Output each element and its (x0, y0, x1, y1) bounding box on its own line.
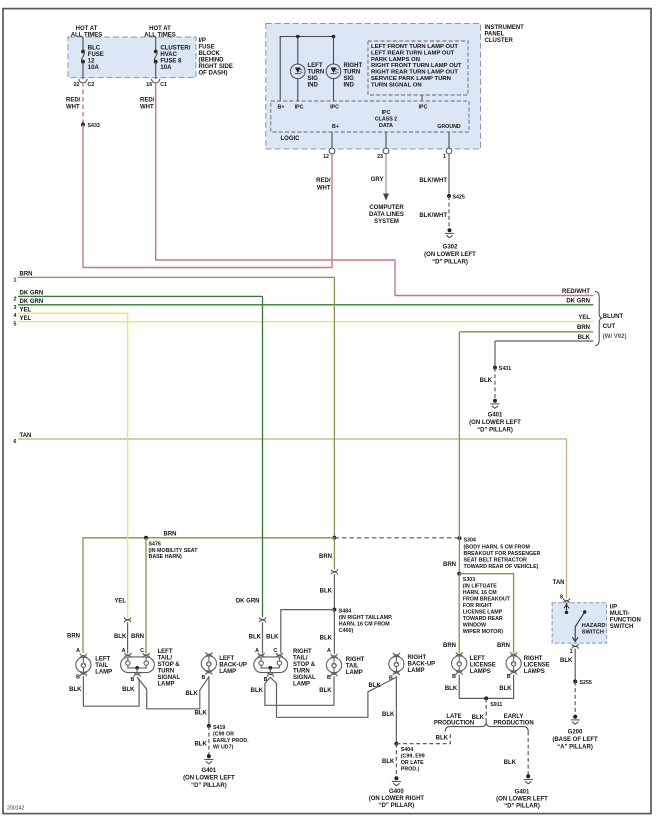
svg-text:22: 22 (74, 82, 80, 88)
lamp RIGHT LICENSE LAMPS (506, 652, 521, 675)
wire BRN blunt cut (459, 331, 593, 333)
svg-text:TURN: TURN (344, 70, 361, 76)
label RED/WHT (left fuse) (66, 98, 81, 111)
svg-text:BLK/WHT: BLK/WHT (419, 178, 447, 184)
ground G401 (blunt) label (469, 413, 521, 434)
connector arc pin 22 C2 (79, 79, 87, 83)
svg-text:LEFT REAR TURN LAMP OUT: LEFT REAR TURN LAMP OUT (371, 50, 455, 56)
svg-text:G400: G400 (389, 789, 404, 795)
svg-text:TURN: TURN (158, 668, 175, 674)
fuse CLUSTER/HVAC label (160, 46, 190, 72)
svg-text:(ON LOWER LEFT: (ON LOWER LEFT (496, 797, 548, 803)
svg-text:FUSE: FUSE (88, 52, 104, 58)
svg-text:IND: IND (344, 83, 355, 89)
LEFT TAIL LAMP label (95, 657, 112, 676)
svg-text:BLK: BLK (480, 378, 493, 384)
wire BLK S484 to right tail lamp (333, 610, 335, 654)
splice S476 (144, 536, 198, 560)
wire GRY to computer data lines (385, 154, 387, 194)
lamp LEFT LICENSE LAMPS (452, 652, 467, 675)
production brace (445, 722, 528, 731)
lamp RIGHT TAIL LAMP (326, 654, 341, 677)
svg-text:BLK/WHT: BLK/WHT (419, 213, 447, 219)
wire BLK dashed to G401 (blunt) (494, 368, 496, 399)
LATE PRODUCTION label (434, 714, 474, 727)
svg-text:BLK: BLK (499, 686, 512, 692)
svg-text:BLK: BLK (122, 687, 135, 693)
svg-text:16: 16 (146, 82, 152, 88)
wire 5 YEL (18, 321, 593, 323)
svg-text:LICENSE: LICENSE (524, 663, 550, 669)
fuse block name label (199, 38, 233, 77)
svg-text:BRN: BRN (443, 562, 456, 568)
svg-text:BLK: BLK (320, 636, 333, 642)
svg-text:A: A (327, 648, 331, 654)
svg-text:PRODUCTION: PRODUCTION (434, 721, 474, 727)
svg-text:B: B (452, 674, 456, 680)
wire YEL vertical from line 4 (127, 313, 129, 617)
wire BLK connector to left tail/stop pin A (127, 622, 129, 653)
svg-text:PARK LAMPS ON: PARK LAMPS ON (371, 57, 420, 63)
svg-text:S303: S303 (463, 577, 475, 583)
svg-text:I/P: I/P (610, 605, 617, 611)
wire logic to pin 1 (448, 132, 450, 148)
splice S304 (458, 536, 541, 570)
svg-text:S433: S433 (88, 123, 100, 129)
wire BRN S303 to right license lamp (459, 574, 513, 653)
svg-text:CLUSTER: CLUSTER (485, 38, 514, 44)
svg-text:BLK: BLK (560, 658, 573, 664)
svg-text:23: 23 (377, 154, 383, 160)
svg-text:IND: IND (308, 83, 319, 89)
svg-text:C2: C2 (88, 82, 95, 88)
connector arc pin 16 C1 (152, 79, 160, 83)
svg-text:TAIL: TAIL (346, 663, 359, 669)
svg-text:HAZARD: HAZARD (582, 623, 606, 629)
svg-text:S304: S304 (464, 538, 476, 544)
svg-text:(IN MOBILITY SEAT: (IN MOBILITY SEAT (149, 548, 199, 554)
svg-text:(BASE OF LEFT: (BASE OF LEFT (552, 737, 598, 743)
svg-text:TAN: TAN (20, 433, 32, 439)
wire 2 DK GRN (18, 295, 263, 297)
svg-text:RED/: RED/ (66, 98, 81, 104)
wire BRN vertical from line 1 (333, 277, 335, 537)
svg-text:BLK: BLK (69, 687, 82, 693)
svg-text:DK GRN: DK GRN (20, 299, 44, 305)
svg-text:BREAKOUT FOR PASSENGER: BREAKOUT FOR PASSENGER (464, 551, 541, 557)
svg-text:G401: G401 (202, 768, 217, 774)
svg-text:4: 4 (14, 313, 17, 319)
wire BLK dashed S911 to brace (485, 698, 487, 722)
svg-text:SYSTEM: SYSTEM (374, 219, 399, 225)
svg-text:C: C (140, 648, 144, 654)
I/P fuse block box (68, 37, 196, 78)
svg-text:12: 12 (88, 59, 95, 65)
logic pin labels top row (278, 105, 428, 111)
fuse BLC FUSE 12 10A (81, 37, 85, 80)
svg-text:DK GRN: DK GRN (236, 599, 260, 605)
ground G302 label (424, 245, 476, 266)
wire BLK/WHT from pin 1 (448, 154, 450, 196)
BLUNT CUT label (603, 314, 627, 340)
splice S404 (394, 742, 424, 773)
wire BLK left back-up B to S419 (208, 676, 210, 726)
svg-text:HOT AT: HOT AT (149, 26, 171, 32)
svg-text:GROUND: GROUND (437, 124, 461, 130)
connector pin 1 (hazard) (572, 644, 579, 649)
svg-text:G401: G401 (488, 413, 503, 419)
svg-text:S404: S404 (401, 747, 413, 753)
lamp LEFT BACK-UP LAMP (201, 652, 216, 675)
svg-text:TURN: TURN (293, 668, 310, 674)
svg-text:SIG: SIG (308, 76, 319, 82)
svg-text:(IN RIGHT TAILLAMP,: (IN RIGHT TAILLAMP, (339, 615, 393, 621)
blunt cut brace (595, 292, 603, 346)
svg-text:(ON LOWER LEFT: (ON LOWER LEFT (469, 420, 521, 426)
svg-text:WHT: WHT (66, 105, 80, 111)
svg-text:RIGHT REAR TURN LAMP OUT: RIGHT REAR TURN LAMP OUT (371, 70, 458, 76)
svg-text:B: B (507, 674, 511, 680)
svg-text:S911: S911 (490, 702, 502, 708)
svg-text:FROM BREAKOUT: FROM BREAKOUT (463, 597, 511, 603)
svg-text:200142: 200142 (7, 806, 24, 812)
svg-text:B: B (76, 675, 80, 681)
svg-text:CUT: CUT (603, 324, 616, 330)
splice S419 (207, 724, 249, 751)
LEFT BACK-UP LAMP label (219, 656, 247, 675)
LEFT TAIL/STOP & TURN SIGNAL LAMP label (158, 649, 181, 688)
svg-text:EARLY PROD.: EARLY PROD. (213, 738, 249, 744)
svg-text:INSTRUMENT: INSTRUMENT (485, 25, 525, 31)
wire BLK left tail B to bus (83, 676, 139, 706)
LEFT LICENSE LAMPS label (470, 656, 496, 675)
svg-text:BLK: BLK (436, 736, 449, 742)
svg-text:B+: B+ (332, 124, 339, 130)
svg-text:8: 8 (560, 595, 563, 601)
RIGHT BACK-UP LAMP label (408, 655, 436, 674)
svg-text:BLK: BLK (320, 589, 333, 595)
svg-text:IPC: IPC (295, 105, 304, 111)
svg-text:RIGHT: RIGHT (346, 657, 365, 663)
svg-text:LAMP: LAMP (219, 669, 236, 675)
HOT AT ALL TIMES label (right) (144, 26, 176, 38)
ground G200 label (552, 730, 598, 751)
svg-text:DATA: DATA (379, 123, 393, 129)
svg-text:BLK: BLK (382, 712, 395, 718)
svg-text:RIGHT FRONT TURN LAMP OUT: RIGHT FRONT TURN LAMP OUT (371, 63, 462, 69)
svg-text:(BODY HARN, 5 CM FROM: (BODY HARN, 5 CM FROM (464, 544, 531, 550)
splice S484 (332, 608, 393, 634)
svg-text:W/ UD7): W/ UD7) (213, 745, 234, 751)
svg-text:PRODUCTION: PRODUCTION (493, 721, 533, 727)
wire BLK dashed S419 to G401 (208, 726, 210, 755)
svg-text:BLK: BLK (369, 683, 382, 689)
svg-text:RIGHT SIDE: RIGHT SIDE (199, 64, 233, 70)
svg-text:BLK: BLK (382, 759, 395, 765)
svg-text:FUSE 8: FUSE 8 (160, 59, 182, 65)
svg-text:BRN: BRN (319, 554, 332, 560)
svg-text:LEFT FRONT TURN LAMP OUT: LEFT FRONT TURN LAMP OUT (371, 44, 458, 50)
wire BLK S484 to right tail/stop pin C (281, 610, 335, 654)
svg-text:DK GRN: DK GRN (20, 290, 44, 296)
wire BLK blunt cut (495, 340, 593, 342)
wire BLK connector to right tail/stop pin A (262, 622, 264, 653)
svg-text:YEL: YEL (20, 308, 32, 314)
svg-text:(BEHIND: (BEHIND (199, 58, 225, 64)
svg-text:2: 2 (14, 296, 17, 302)
svg-text:C: C (273, 648, 277, 654)
svg-text:BRN: BRN (497, 643, 510, 649)
svg-text:RIGHT: RIGHT (524, 656, 543, 662)
message list box (368, 41, 468, 95)
wire BLK connector to S484 (333, 574, 335, 609)
svg-text:G200: G200 (568, 730, 583, 736)
node dot left ind tap (296, 35, 300, 39)
svg-text:CLASS 2: CLASS 2 (375, 117, 397, 123)
lamp RIGHT BACK-UP LAMP (389, 653, 404, 676)
HAZARD SWITCH label (582, 623, 606, 636)
lamp LEFT TAIL/STOP & TURN SIGNAL LAMP (121, 653, 155, 677)
svg-text:YEL: YEL (20, 316, 32, 322)
ground G401 (left) label (183, 768, 235, 789)
svg-text:RED/: RED/ (140, 98, 155, 104)
instrument panel cluster box (266, 24, 481, 150)
wire BLK hazard to S255 (574, 649, 576, 682)
svg-text:LAMPS: LAMPS (470, 669, 491, 675)
svg-text:LAMPS: LAMPS (524, 669, 545, 675)
svg-text:C1: C1 (160, 82, 167, 88)
svg-text:WHT: WHT (140, 105, 154, 111)
label RED/WHT (right fuse) (140, 98, 155, 111)
svg-text:BLK: BLK (249, 635, 262, 641)
svg-text:TOWARD REAR OF VEHICLE): TOWARD REAR OF VEHICLE) (464, 564, 539, 570)
svg-text:(W/ V92): (W/ V92) (603, 334, 627, 340)
svg-text:G302: G302 (443, 245, 458, 251)
svg-text:“D” PILLAR): “D” PILLAR) (504, 804, 540, 810)
I/P MULTI-FUNCTION SWITCH label (610, 605, 641, 631)
svg-text:(C99, E99: (C99, E99 (401, 753, 425, 759)
svg-text:BLK: BLK (194, 742, 207, 748)
wire logic to pin 23 (385, 132, 387, 148)
svg-text:B: B (327, 675, 331, 681)
svg-text:BRN: BRN (577, 325, 590, 331)
label RED/WHT cluster B+ (316, 178, 331, 192)
svg-text:LATE: LATE (446, 714, 461, 720)
svg-text:BLOCK: BLOCK (199, 51, 221, 57)
wire BRN up to blunt cut (458, 332, 460, 538)
connector on YEL (124, 617, 131, 622)
wire RED/WHT from S433 down, right, up to cluster B+ pin 12 (83, 125, 332, 268)
svg-text:S419: S419 (213, 725, 225, 731)
svg-text:TAIL/: TAIL/ (158, 655, 173, 661)
node dot right ind tap (332, 35, 336, 39)
svg-text:BLK: BLK (504, 760, 517, 766)
svg-text:YEL: YEL (114, 599, 126, 605)
LEFT TURN SIG IND label (308, 63, 325, 89)
splice S425 (447, 194, 465, 201)
svg-text:“D” PILLAR): “D” PILLAR) (379, 803, 415, 809)
wire BLK dashed S255 to G200 (574, 682, 576, 716)
svg-text:HVAC: HVAC (160, 52, 177, 58)
fuse BLC label (88, 46, 104, 72)
svg-text:HARN, 16 CM: HARN, 16 CM (463, 590, 497, 596)
connector on DK GRN (259, 617, 266, 622)
wire RED/WHT from fuse CLUSTER/HVAC to blunt cut (156, 82, 594, 296)
svg-text:LAMP: LAMP (95, 670, 112, 676)
pin label 22 C2 (74, 82, 95, 88)
svg-text:(ON LOWER LEFT: (ON LOWER LEFT (424, 252, 476, 258)
wire BRN S303 to left license lamp (458, 574, 460, 653)
svg-text:BLK: BLK (578, 335, 591, 341)
svg-text:YEL: YEL (578, 315, 590, 321)
svg-text:LICENSE LAMP: LICENSE LAMP (463, 610, 503, 616)
ground G401 (early production) label (496, 790, 548, 810)
svg-text:RIGHT: RIGHT (408, 655, 427, 661)
svg-text:TURN SIGNAL ON: TURN SIGNAL ON (371, 82, 422, 88)
svg-text:DK GRN: DK GRN (566, 298, 590, 304)
wire DK GRN vertical from line 2 (262, 296, 264, 617)
svg-text:OR LATE: OR LATE (401, 760, 424, 766)
RIGHT TURN SIG IND lamp (326, 64, 341, 79)
ground G302 (445, 228, 454, 237)
wire message box to IPC pin (421, 95, 423, 101)
svg-text:GRY: GRY (371, 177, 384, 183)
svg-text:LAMP: LAMP (408, 668, 425, 674)
B+ internal wire (280, 37, 333, 102)
ground G400 (392, 776, 401, 785)
svg-text:IPC: IPC (382, 110, 391, 116)
svg-text:TURN: TURN (308, 70, 325, 76)
svg-text:10A: 10A (88, 65, 100, 71)
svg-text:S255: S255 (580, 680, 592, 686)
svg-text:TAIL: TAIL (95, 663, 108, 669)
HOT AT ALL TIMES label (left) (71, 26, 103, 38)
svg-text:BACK-UP: BACK-UP (408, 662, 436, 668)
svg-text:B: B (130, 677, 134, 683)
svg-text:“A” PILLAR): “A” PILLAR) (557, 745, 593, 751)
svg-text:“D” PILLAR): “D” PILLAR) (432, 260, 468, 266)
svg-text:BLK: BLK (194, 711, 207, 717)
svg-text:10A: 10A (160, 65, 172, 71)
svg-text:(IN LIFTGATE: (IN LIFTGATE (463, 584, 497, 590)
pin label 16 C1 (146, 82, 167, 88)
LEFT TURN SIG IND lamp (291, 64, 306, 79)
svg-text:STOP &: STOP & (293, 662, 316, 668)
ground G400 label (369, 789, 425, 809)
wire logic to pin 12 (331, 132, 333, 148)
svg-text:1: 1 (443, 154, 446, 160)
wire 6 TAN (18, 438, 567, 440)
svg-text:BASE HARN): BASE HARN) (149, 554, 182, 560)
wire BLK dashed S404 to G400 (395, 744, 397, 777)
ground G200 (571, 715, 580, 724)
arrow to computer data lines (383, 194, 389, 201)
svg-text:S425: S425 (453, 195, 465, 201)
svg-text:SIGNAL: SIGNAL (158, 675, 181, 681)
wire dashed BRN junction to S304 (334, 537, 459, 539)
splice S431 (493, 366, 511, 373)
svg-text:HARN, 16 CM FROM: HARN, 16 CM FROM (339, 621, 390, 627)
lamp RIGHT TAIL/STOP & TURN SIGNAL LAMP (254, 653, 288, 677)
svg-text:BLC: BLC (88, 46, 101, 52)
hazard switch (564, 603, 586, 641)
svg-text:BLK: BLK (251, 688, 264, 694)
pin 1 connector (443, 148, 452, 160)
svg-text:SWITCH: SWITCH (582, 630, 604, 636)
svg-text:RIGHT: RIGHT (344, 63, 363, 69)
ground G401 (early production) (524, 774, 533, 783)
svg-text:IPC: IPC (330, 105, 339, 111)
wire right indicator to logic (333, 37, 335, 102)
svg-text:S476: S476 (149, 542, 161, 548)
svg-text:BRN: BRN (443, 643, 456, 649)
wire RED/WHT dashed from fuse BLC to S433 (82, 82, 84, 125)
svg-text:COMPUTER: COMPUTER (369, 205, 404, 211)
svg-text:SERVICE PARK LAMP TURN: SERVICE PARK LAMP TURN (371, 76, 451, 82)
svg-text:BRN: BRN (67, 634, 80, 640)
svg-text:12: 12 (323, 154, 329, 160)
svg-text:A: A (122, 648, 126, 654)
svg-text:BACK-UP: BACK-UP (219, 663, 247, 669)
wire BLK/WHT dashed to G302 (448, 196, 450, 229)
cluster name label (485, 25, 525, 44)
wire BLK right tail/stop B to right back-up B (270, 677, 396, 717)
svg-text:CLUSTER/: CLUSTER/ (160, 46, 190, 52)
connector pin 8 (563, 598, 570, 603)
svg-text:MULTI-: MULTI- (610, 611, 630, 617)
svg-text:TAN: TAN (553, 580, 565, 586)
svg-text:“D” PILLAR): “D” PILLAR) (191, 783, 227, 789)
svg-text:BRN: BRN (164, 531, 177, 537)
svg-text:LOGIC: LOGIC (281, 136, 301, 142)
svg-text:BLK: BLK (445, 686, 458, 692)
pin 23 connector (377, 148, 389, 160)
svg-text:(ON LOWER RIGHT: (ON LOWER RIGHT (369, 796, 425, 802)
logic box (271, 101, 469, 132)
wire BLK vertical to S431 (494, 341, 496, 368)
svg-text:(ON LOWER LEFT: (ON LOWER LEFT (183, 776, 235, 782)
splice S911 (484, 696, 502, 708)
svg-text:BLK: BLK (185, 691, 198, 697)
connector C460 on right tail feed (331, 569, 338, 574)
svg-text:BRN: BRN (20, 271, 33, 277)
svg-text:(C99 OR: (C99 OR (213, 732, 234, 738)
wire 3 DK GRN (18, 304, 593, 306)
svg-text:TAIL/: TAIL/ (293, 655, 308, 661)
lamp LEFT TAIL LAMP (76, 654, 91, 677)
wire BLK dashed S404 to late production brace (396, 732, 450, 744)
svg-text:BRN: BRN (131, 634, 144, 640)
wire BRN junction down to connector C460 (333, 538, 335, 570)
fuse CLUSTER/HVAC FUSE 8 10A (154, 37, 158, 80)
svg-text:BLUNT: BLUNT (603, 314, 624, 320)
wire BLK right tail/stop B to right tail B (265, 676, 334, 705)
splice S433 (81, 123, 100, 130)
svg-text:I/P: I/P (199, 38, 206, 44)
wire BRN S304 to S303 (458, 538, 460, 574)
wire left indicator to logic (297, 37, 299, 102)
svg-text:G401: G401 (515, 790, 530, 796)
wire BLK license lamps to S911 (459, 675, 513, 699)
splice S255 (573, 680, 592, 687)
svg-text:RED/WHT: RED/WHT (562, 289, 590, 295)
multifunction switch box (552, 603, 607, 643)
svg-text:FUNCTION: FUNCTION (610, 618, 641, 624)
svg-text:1: 1 (14, 277, 17, 283)
svg-text:LEFT: LEFT (219, 656, 234, 662)
splice S303 (457, 572, 510, 635)
svg-text:EARLY: EARLY (504, 714, 524, 720)
